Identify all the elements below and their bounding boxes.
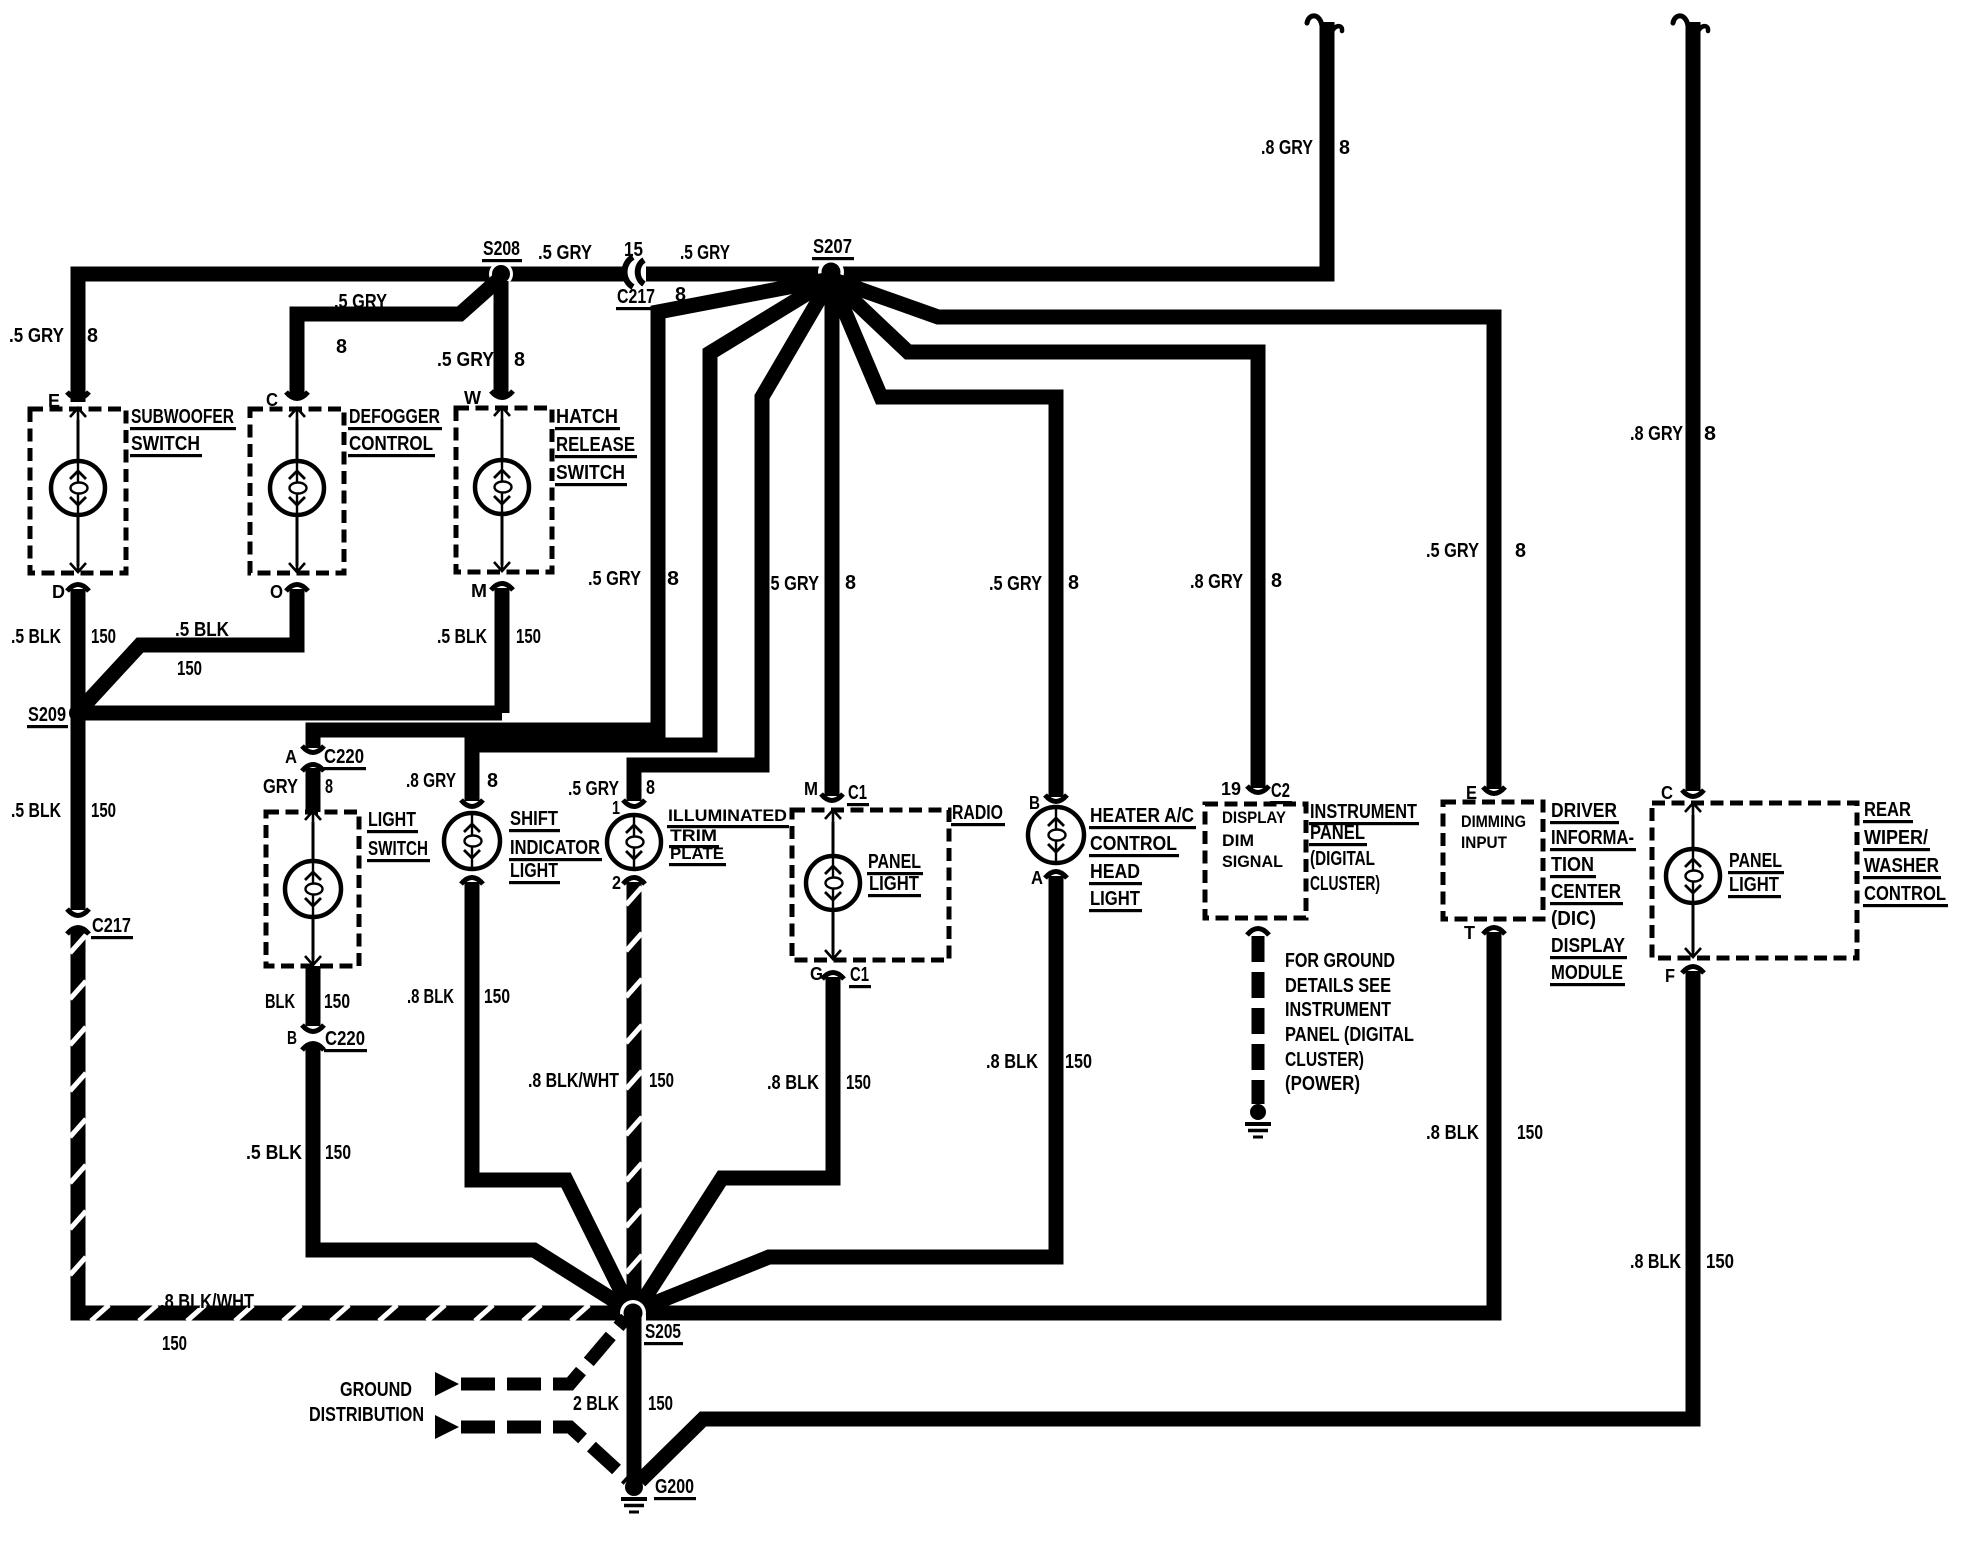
svg-text:PLATE: PLATE <box>670 844 724 863</box>
svg-text:T: T <box>1464 923 1475 943</box>
connector chevron below display dim signal box <box>1247 929 1269 936</box>
off-page break symbol (top of rear-wiper .8 GRY wire) <box>1673 16 1688 26</box>
connector C220 cavity B (out of light switch) <box>302 1025 324 1032</box>
svg-text:PANEL (DIGITAL: PANEL (DIGITAL <box>1285 1024 1414 1046</box>
svg-text:.5 GRY: .5 GRY <box>334 291 388 313</box>
svg-text:ILLUMINATED: ILLUMINATED <box>668 806 787 825</box>
svg-text:SUBWOOFER: SUBWOOFER <box>131 406 234 428</box>
svg-text:.8 BLK: .8 BLK <box>407 986 454 1008</box>
splice S209 <box>69 704 87 722</box>
svg-text:A: A <box>285 747 297 767</box>
svg-text:GRY: GRY <box>263 776 299 798</box>
svg-text:8: 8 <box>514 349 525 371</box>
svg-text:A: A <box>1031 868 1043 888</box>
svg-text:PANEL: PANEL <box>868 851 921 873</box>
svg-text:.5 GRY: .5 GRY <box>9 325 65 347</box>
svg-text:INFORMA-: INFORMA- <box>1551 827 1634 849</box>
component: LIGHT SWITCH (dashed box) <box>266 812 359 966</box>
svg-text:MODULE: MODULE <box>1551 962 1623 984</box>
wire: S209 down to C217 (.5 BLK 150) <box>71 713 86 910</box>
svg-text:DISPLAY: DISPLAY <box>1222 808 1287 827</box>
wire: radio G to S205 (.8 BLK 150) <box>639 977 833 1307</box>
svg-text:.5 GRY: .5 GRY <box>588 568 642 590</box>
svg-text:150: 150 <box>324 991 350 1013</box>
wire stub C220-A to light switch box <box>306 768 321 812</box>
svg-text:TRIM: TRIM <box>670 826 717 845</box>
svg-text:8: 8 <box>1068 572 1079 594</box>
svg-text:PANEL: PANEL <box>1729 850 1782 872</box>
svg-text:LIGHT: LIGHT <box>510 860 558 882</box>
svg-text:C220: C220 <box>324 746 364 768</box>
wire stub light switch to C220-B (BLK 150) <box>306 966 321 1026</box>
pin E into DIC dimming input <box>1483 787 1505 794</box>
component: DEFOGGER CONTROL (dashed box) <box>250 409 344 573</box>
svg-text:150: 150 <box>162 1333 187 1355</box>
svg-text:DEFOGGER: DEFOGGER <box>349 406 440 428</box>
svg-text:O: O <box>270 582 283 602</box>
component: ILLUMINATED TRIM PLATE lamp, pin 1 <box>623 800 645 807</box>
lamp inside light switch <box>312 822 315 862</box>
wire: S208 branch to defogger control pin C (.5 GRY) <box>297 281 497 397</box>
svg-text:LIGHT: LIGHT <box>368 809 416 831</box>
svg-text:.5 BLK: .5 BLK <box>246 1142 302 1164</box>
svg-text:.8 GRY: .8 GRY <box>1630 423 1684 445</box>
wire: S207 branch to light switch via C220-A (.5 GRY) <box>313 279 831 748</box>
svg-text:HEAD: HEAD <box>1090 861 1140 883</box>
component: DISPLAY DIM SIGNAL (dashed box), part of instrument panel digital cluster <box>1205 804 1306 918</box>
wire: instrument-lamps feed bus (.5 GRY) left segment + drop to subwoofer switch pin E <box>78 274 624 402</box>
pin 2 of illuminated trim plate <box>623 878 645 885</box>
svg-text:WIPER/: WIPER/ <box>1864 827 1928 849</box>
svg-text:150: 150 <box>846 1072 871 1094</box>
svg-text:LIGHT: LIGHT <box>869 873 919 895</box>
svg-text:G200: G200 <box>655 1476 694 1498</box>
svg-text:DISTRIBUTION: DISTRIBUTION <box>309 1404 424 1426</box>
connector C220 cavity A (into light switch) <box>302 746 324 753</box>
svg-text:S207: S207 <box>813 236 852 258</box>
pin O connector out of defogger control <box>286 585 308 592</box>
pin A of heater a/c lamp <box>1045 872 1067 879</box>
svg-text:F: F <box>1665 966 1675 986</box>
ground distribution off-page arrow 2 <box>435 1415 459 1439</box>
panel light lamp inside rear wiper/washer control <box>1692 815 1695 850</box>
wire: hatch release M to S209 (.5 BLK 150) <box>495 588 510 713</box>
lamp inside subwoofer switch <box>77 420 80 461</box>
svg-text:M: M <box>804 779 818 799</box>
svg-text:DRIVER: DRIVER <box>1551 800 1617 822</box>
wire: off-page riser down to rear wiper/washer panel light pin C (.8 GRY) <box>1686 22 1701 791</box>
wire: S207 drop to radio panel light pin M (.5 GRY) <box>825 279 840 796</box>
pin G / connector C1 out of radio <box>822 973 844 980</box>
svg-text:INSTRUMENT: INSTRUMENT <box>1285 999 1391 1021</box>
svg-text:.5 GRY: .5 GRY <box>538 242 593 264</box>
wire: S209 collector horizontal <box>78 706 502 721</box>
svg-text:C217: C217 <box>617 286 655 308</box>
svg-text:.8 BLK: .8 BLK <box>986 1051 1038 1073</box>
svg-text:DISPLAY: DISPLAY <box>1551 935 1626 957</box>
svg-text:19: 19 <box>1221 779 1241 799</box>
svg-text:C220: C220 <box>325 1028 365 1050</box>
svg-text:8: 8 <box>87 325 98 347</box>
component: SUBWOOFER SWITCH (dashed box) <box>30 409 126 573</box>
wire: dimming input T to S205 (.8 BLK 150) <box>646 932 1494 1313</box>
dashed wire: ground distribution to G200 <box>461 1427 628 1480</box>
svg-text:.5 GRY: .5 GRY <box>568 778 620 800</box>
svg-text:8: 8 <box>1704 423 1716 445</box>
svg-text:SHIFT: SHIFT <box>510 808 558 830</box>
lamp inside hatch release switch <box>501 419 504 460</box>
pin F out of rear wiper/washer control <box>1682 967 1704 974</box>
wire: rear wiper F to G200 (.8 BLK 150) <box>640 971 1693 1481</box>
svg-text:.5 GRY: .5 GRY <box>437 349 495 371</box>
svg-text:DETAILS SEE: DETAILS SEE <box>1285 975 1391 997</box>
connector C217 (in-line, left ground wire) <box>67 909 89 916</box>
svg-text:M: M <box>471 581 487 601</box>
svg-text:.5 GRY: .5 GRY <box>680 242 731 264</box>
svg-text:INPUT: INPUT <box>1461 833 1508 852</box>
svg-text:LIGHT: LIGHT <box>1090 888 1140 910</box>
svg-text:150: 150 <box>91 800 116 822</box>
svg-text:.5 GRY: .5 GRY <box>766 573 820 595</box>
svg-text:150: 150 <box>91 626 116 648</box>
svg-text:8: 8 <box>1339 137 1350 159</box>
ground G200 <box>625 1478 643 1496</box>
svg-text:W: W <box>464 388 481 408</box>
wire: S208 drop to hatch release switch pin W (.5 GRY) <box>494 281 509 397</box>
svg-text:LIGHT: LIGHT <box>1729 874 1779 896</box>
ground distribution off-page arrow 1 <box>435 1372 459 1396</box>
svg-text:150: 150 <box>1517 1122 1543 1144</box>
svg-text:.8 BLK: .8 BLK <box>1426 1122 1479 1144</box>
svg-text:150: 150 <box>648 1393 673 1415</box>
wire: heater A to S205 (.8 BLK 150) <box>640 876 1056 1309</box>
svg-text:C1: C1 <box>848 782 867 804</box>
component: HATCH RELEASE SWITCH (dashed box) <box>456 408 552 572</box>
svg-text:HATCH: HATCH <box>556 406 618 428</box>
component: SHIFT INDICATOR LIGHT lamp <box>461 800 483 807</box>
wire: display dim signal ground lead (dashed) <box>1252 936 1265 1104</box>
svg-text:SWITCH: SWITCH <box>556 462 625 484</box>
ground G (instrument panel) for display dim signal <box>1250 1104 1266 1120</box>
dashed wire: ground distribution to S205 <box>461 1318 626 1384</box>
wire: S205 to ground G200 (2 BLK 150) <box>627 1313 642 1487</box>
svg-text:8: 8 <box>1515 540 1526 562</box>
component: RADIO (dashed box) with PANEL LIGHT <box>792 810 949 960</box>
svg-text:.8 BLK/WHT: .8 BLK/WHT <box>160 1291 254 1313</box>
svg-text:.5 BLK: .5 BLK <box>11 626 61 648</box>
pin E connector into subwoofer switch <box>67 392 89 399</box>
svg-text:2 BLK: 2 BLK <box>573 1393 619 1415</box>
component: HEATER A/C CONTROL HEAD LIGHT lamp, pin B <box>1045 795 1067 802</box>
svg-text:B: B <box>287 1028 297 1048</box>
svg-text:150: 150 <box>516 626 541 648</box>
svg-text:8: 8 <box>336 336 347 358</box>
svg-text:.8 GRY: .8 GRY <box>1190 571 1244 593</box>
svg-text:CONTROL: CONTROL <box>1090 833 1177 855</box>
svg-text:8: 8 <box>667 568 679 590</box>
pin W connector into hatch release switch <box>491 391 513 398</box>
svg-text:.5 GRY: .5 GRY <box>989 573 1043 595</box>
svg-text:2: 2 <box>612 873 621 893</box>
panel light lamp inside radio <box>832 822 835 857</box>
svg-text:8: 8 <box>1271 570 1282 592</box>
svg-text:C1: C1 <box>850 964 869 986</box>
off-page break symbol (top of .8 GRY wire) <box>1307 16 1322 26</box>
svg-text:CLUSTER): CLUSTER) <box>1310 873 1380 895</box>
wire: defogger O to S209 (.5 BLK 150) <box>80 589 297 710</box>
svg-text:TION: TION <box>1551 854 1594 876</box>
svg-text:S208: S208 <box>483 238 520 260</box>
svg-text:1: 1 <box>612 798 620 818</box>
svg-text:CENTER: CENTER <box>1551 881 1621 903</box>
svg-text:CONTROL: CONTROL <box>1864 883 1946 905</box>
svg-text:DIMMING: DIMMING <box>1461 812 1526 831</box>
svg-text:.5 BLK: .5 BLK <box>11 800 61 822</box>
svg-text:150: 150 <box>484 986 510 1008</box>
splice S208 <box>489 262 513 286</box>
svg-text:.8 BLK: .8 BLK <box>1630 1251 1681 1273</box>
svg-text:PANEL: PANEL <box>1310 822 1365 844</box>
svg-text:WASHER: WASHER <box>1864 855 1939 877</box>
svg-text:G: G <box>810 964 823 984</box>
svg-text:(DIC): (DIC) <box>1551 908 1596 930</box>
svg-text:GROUND: GROUND <box>340 1379 412 1401</box>
svg-text:REAR: REAR <box>1864 799 1911 821</box>
wire: bus right segment from C217 to off-page top right (.8 GRY) <box>646 22 1327 274</box>
svg-text:.5 BLK: .5 BLK <box>437 626 487 648</box>
wire: S207 branch to DIC dimming input pin E (.5 GRY) <box>831 279 1494 789</box>
svg-text:150: 150 <box>177 658 202 680</box>
wire: trim plate pin 2 to S205 (.8 BLK/WHT 150, hatched) <box>627 882 642 1304</box>
svg-text:8: 8 <box>845 572 856 594</box>
svg-text:8: 8 <box>325 776 333 798</box>
wire: C217 to S205 (.8 BLK/WHT 150, hatched) <box>78 928 624 1313</box>
wire: shift indicator to S205 (.8 BLK 150) <box>472 882 629 1307</box>
svg-text:CONTROL: CONTROL <box>349 433 433 455</box>
wire: S207 branch to shift indicator light (.8 GRY) <box>472 279 831 801</box>
svg-text:.5 BLK: .5 BLK <box>175 619 229 641</box>
svg-text:SIGNAL: SIGNAL <box>1222 852 1283 871</box>
svg-text:8: 8 <box>487 770 498 792</box>
svg-text:BLK: BLK <box>265 991 295 1013</box>
wire: S207 branch to illuminated trim plate pin 1 (.5 GRY) <box>634 279 831 801</box>
svg-text:SWITCH: SWITCH <box>131 433 200 455</box>
svg-text:RADIO: RADIO <box>952 802 1003 824</box>
wire: C220-B to S205 (.5 BLK 150) <box>313 1045 626 1308</box>
svg-text:C217: C217 <box>92 915 131 937</box>
svg-text:DIM: DIM <box>1222 831 1254 850</box>
wire: S207 branch to heater A/C control head light pin B (.5 GRY) <box>831 279 1056 797</box>
svg-text:RELEASE: RELEASE <box>556 434 635 456</box>
svg-text:D: D <box>52 582 65 602</box>
svg-text:C2: C2 <box>1271 780 1290 802</box>
lamp inside defogger control <box>296 420 299 461</box>
svg-text:C: C <box>1661 783 1673 803</box>
svg-text:.8 BLK: .8 BLK <box>767 1072 819 1094</box>
svg-text:(POWER): (POWER) <box>1285 1073 1360 1095</box>
pin C connector into defogger control <box>286 392 308 399</box>
svg-text:FOR GROUND: FOR GROUND <box>1285 950 1395 972</box>
pin C into rear wiper/washer control <box>1682 790 1704 797</box>
svg-text:.5 GRY: .5 GRY <box>1426 540 1480 562</box>
component: DIMMING INPUT (dashed box) of driver information center display module <box>1443 802 1543 919</box>
connector C217 (in-line on bus, 15) <box>625 257 633 287</box>
pin M connector out of hatch release switch <box>491 584 513 591</box>
svg-text:C: C <box>266 390 278 410</box>
wire: S207 branch to display dim signal pin 19 (.8 GRY) <box>831 279 1258 788</box>
pin 19 / connector C2 into display dim signal <box>1247 786 1269 793</box>
svg-text:B: B <box>1029 793 1040 813</box>
svg-text:15: 15 <box>624 239 643 261</box>
svg-text:150: 150 <box>1706 1251 1734 1273</box>
svg-text:.8 GRY: .8 GRY <box>1261 137 1314 159</box>
svg-text:CLUSTER): CLUSTER) <box>1285 1049 1364 1071</box>
svg-text:SWITCH: SWITCH <box>368 838 428 860</box>
splice S205 <box>620 1300 646 1326</box>
svg-text:(DIGITAL: (DIGITAL <box>1310 848 1375 870</box>
svg-text:150: 150 <box>649 1070 674 1092</box>
svg-text:INSTRUMENT: INSTRUMENT <box>1310 801 1417 823</box>
splice S207 <box>818 259 844 285</box>
svg-text:INDICATOR: INDICATOR <box>510 837 600 859</box>
svg-text:150: 150 <box>325 1142 351 1164</box>
svg-text:150: 150 <box>1065 1051 1092 1073</box>
svg-text:.8 GRY: .8 GRY <box>406 770 457 792</box>
svg-text:HEATER A/C: HEATER A/C <box>1090 805 1194 827</box>
svg-text:E: E <box>48 391 60 411</box>
pin D connector out of subwoofer switch <box>67 585 89 592</box>
pin M / connector C1 into radio <box>821 794 843 801</box>
component: REAR WIPER/WASHER CONTROL (dashed box) with PANEL LIGHT <box>1652 803 1857 958</box>
wire: subwoofer D to S209 (.5 BLK 150) <box>71 589 86 713</box>
svg-text:S209: S209 <box>28 704 66 726</box>
svg-text:.8 BLK/WHT: .8 BLK/WHT <box>528 1070 619 1092</box>
pin T out of DIC dimming input <box>1483 928 1505 935</box>
svg-text:S205: S205 <box>645 1321 681 1343</box>
svg-text:8: 8 <box>646 777 655 799</box>
